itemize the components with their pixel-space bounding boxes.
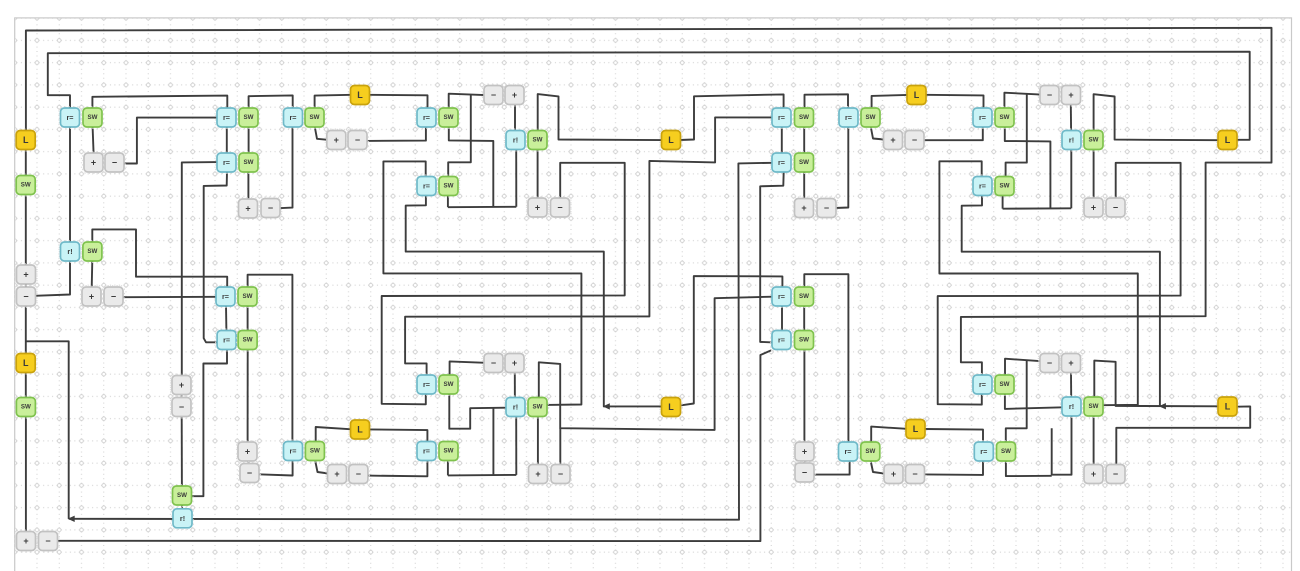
- contact-minus box M_d '−': [170, 396, 192, 418]
- svg-text:+: +: [512, 358, 517, 368]
- svg-text:r!: r!: [513, 136, 518, 145]
- svg-text:+: +: [891, 469, 896, 479]
- svg-text:r=: r=: [423, 447, 430, 456]
- wire Rc bottom chain: [204, 172, 227, 342]
- relay-eq box R_e 'r=': [216, 329, 238, 351]
- relay-eq box R_h 'r=': [415, 175, 437, 197]
- lamp box L1 'L': [15, 129, 37, 151]
- contact-plus box P_e '+': [236, 440, 258, 462]
- svg-text:SW: SW: [310, 114, 320, 121]
- wire junction1026 to SWu top: [1006, 94, 1027, 176]
- svg-text:SW: SW: [87, 248, 97, 255]
- wire SWi-Mg: [449, 94, 485, 109]
- contact-minus box M_n '−': [1038, 84, 1060, 106]
- svg-text:SW: SW: [1000, 114, 1010, 121]
- wire Rg-Mf: [366, 127, 426, 141]
- svg-text:SW: SW: [244, 114, 254, 121]
- relay-eq box R_a 'r=': [59, 106, 81, 128]
- wire SWi chain H140: [449, 127, 494, 207]
- contact-plus box P_i '+': [326, 463, 348, 485]
- wire SW1-P1: [25, 196, 27, 267]
- wire SWt-Po: [1093, 149, 1095, 200]
- contact-plus box P_o '+': [1082, 196, 1104, 218]
- switch box SW_t 'SW': [1082, 129, 1104, 151]
- wire H475: [448, 474, 516, 477]
- svg-text:r=: r=: [778, 113, 785, 122]
- wire SWb top chain: [92, 229, 227, 288]
- relay-eq box R_i 'r=': [282, 440, 304, 462]
- svg-text:−: −: [912, 135, 917, 145]
- svg-text:+: +: [801, 203, 806, 213]
- contact-minus box M_m '−': [903, 129, 925, 151]
- contact-plus box P2 '+': [15, 530, 37, 552]
- wire bridge SWa-Rb: [92, 96, 227, 111]
- wire Pd-Md: [181, 393, 183, 398]
- svg-text:SW: SW: [243, 293, 253, 300]
- contact-minus box M1 '−': [15, 285, 37, 307]
- wire RXa-M1: [35, 260, 70, 296]
- contact-minus box M_p '−': [793, 461, 815, 483]
- switch box SW_e 'SW': [236, 285, 258, 307]
- switch box SW_z 'SW': [995, 440, 1017, 462]
- wire SWl-Pi: [315, 460, 328, 474]
- contact-minus box M_f '−': [346, 129, 368, 151]
- wire SWo-Pk: [537, 416, 539, 465]
- contact-plus box P_n '+': [1060, 84, 1082, 106]
- wire SWu bottom: [1002, 195, 1004, 208]
- contact-minus box M_h '−': [549, 196, 571, 218]
- relay-eq box R_r 'r=': [770, 329, 792, 351]
- relay-excl box RX_b 'r!': [171, 507, 193, 529]
- svg-text:+: +: [91, 158, 96, 168]
- relay-eq box R_m 'r=': [770, 151, 792, 173]
- svg-text:SW: SW: [243, 337, 253, 344]
- svg-text:r=: r=: [223, 336, 230, 345]
- svg-text:SW: SW: [444, 381, 454, 388]
- relay-eq box R_j 'r=': [415, 373, 437, 395]
- svg-text:SW: SW: [533, 137, 543, 144]
- svg-text:+: +: [1091, 203, 1096, 213]
- switch box SW_u 'SW': [993, 175, 1015, 197]
- svg-text:r=: r=: [778, 292, 785, 301]
- contact-minus box M2 '−': [37, 530, 59, 552]
- svg-text:r=: r=: [845, 447, 852, 456]
- switch box SW2 'SW': [15, 396, 37, 418]
- svg-text:−: −: [45, 536, 50, 546]
- svg-text:−: −: [558, 469, 563, 479]
- wire Pn-RXe: [1070, 104, 1072, 132]
- svg-text:SW: SW: [1089, 403, 1099, 410]
- wire SWx-Pq: [871, 461, 885, 474]
- wire Rq-Rr: [781, 306, 783, 332]
- wire SWd-Pc: [247, 172, 249, 200]
- wire bus541: [57, 350, 771, 541]
- svg-text:SW: SW: [444, 448, 454, 455]
- wire junction470 to SWk top: [448, 95, 471, 177]
- wire SWy top to Mr: [1005, 359, 1041, 376]
- switch box SW_c 'SW': [237, 106, 259, 128]
- svg-text:SW: SW: [799, 159, 809, 166]
- wire Mc-Rf bottom: [279, 126, 293, 208]
- wire SWk bottom: [447, 196, 449, 207]
- wire bridge SWc-Rf: [249, 95, 293, 108]
- switch box SW_w 'SW': [793, 329, 815, 351]
- wire Mb-Rd: [123, 296, 217, 298]
- wire arrow: [1159, 403, 1166, 409]
- wire SWb-Pb: [91, 261, 94, 289]
- svg-text:+: +: [512, 90, 517, 100]
- lamp box L9 'L': [660, 129, 682, 151]
- wire Pr-RXf: [1070, 372, 1072, 399]
- svg-text:−: −: [179, 402, 184, 412]
- wire P1-left: [382, 163, 625, 404]
- relay-eq box R_f 'r=': [282, 106, 304, 128]
- svg-text:−: −: [1047, 90, 1052, 100]
- svg-text:−: −: [112, 158, 117, 168]
- lamp box L3 'L': [349, 84, 371, 106]
- wire SWv-SWw: [803, 306, 805, 332]
- wire SWm top to Mj: [450, 361, 486, 375]
- svg-text:+: +: [890, 135, 895, 145]
- svg-text:+: +: [245, 204, 250, 214]
- contact-plus box P_s '+': [1082, 463, 1104, 485]
- wire L3-SWh: [315, 95, 352, 109]
- wire H208r: [1003, 207, 1072, 209]
- wire SWn bottom: [447, 462, 449, 476]
- wire SWj-Ph: [537, 149, 539, 200]
- svg-text:r=: r=: [778, 336, 785, 345]
- wire P2-right: [962, 196, 1160, 406]
- relay-excl box RX_d 'r!': [504, 396, 526, 418]
- switch box SW_i 'SW': [437, 106, 459, 128]
- wire branch to bus519: [26, 341, 69, 519]
- svg-text:SW: SW: [1001, 448, 1011, 455]
- wire SWa-Pa: [93, 127, 94, 154]
- contact-minus box M_l '−': [815, 197, 837, 219]
- svg-text:r!: r!: [67, 247, 72, 256]
- contact-minus box M_i '−': [347, 463, 369, 485]
- svg-text:−: −: [1047, 358, 1052, 368]
- wire A (top bus): [26, 28, 1272, 377]
- svg-text:L: L: [914, 90, 920, 100]
- svg-text:+: +: [535, 469, 540, 479]
- relay-eq box R_d 'r=': [214, 285, 236, 307]
- svg-text:+: +: [1091, 469, 1096, 479]
- relay-eq box R_b 'r=': [215, 106, 237, 128]
- svg-text:+: +: [179, 380, 184, 390]
- svg-text:L: L: [913, 424, 919, 434]
- wire SWg-RXb: [181, 505, 183, 511]
- svg-text:SW: SW: [21, 404, 31, 411]
- svg-text:SW: SW: [865, 448, 875, 455]
- contact-minus box M_a '−': [103, 151, 125, 173]
- switch box SW_v 'SW': [793, 285, 815, 307]
- svg-text:+: +: [535, 203, 540, 213]
- wire L6-SWx: [871, 427, 906, 443]
- svg-text:r!: r!: [1069, 402, 1074, 411]
- wire SWw-Pp: [803, 350, 805, 443]
- switch box SW_g 'SW': [171, 484, 193, 506]
- wire P2-left: [406, 196, 663, 407]
- relay-eq box R_q 'r=': [770, 285, 792, 307]
- wire RXd bottom: [515, 416, 517, 475]
- wire L2-SW2: [25, 372, 27, 399]
- contact-plus box P_r '+': [1060, 352, 1082, 374]
- contact-plus box P_b '+': [80, 285, 102, 307]
- relay-eq box R_g 'r=': [415, 106, 437, 128]
- wire R_a-RX_a: [69, 125, 71, 244]
- contact-plus box P_g '+': [503, 84, 525, 106]
- wire SWh-Pf: [315, 127, 328, 140]
- contact-minus box M_o '−': [1104, 196, 1126, 218]
- relay-eq box R_l 'r=': [770, 106, 792, 128]
- wire P1-M1: [25, 284, 27, 289]
- svg-text:L: L: [357, 425, 363, 435]
- wire SWp-SWq: [803, 126, 805, 154]
- svg-text:−: −: [557, 203, 562, 213]
- wire Mp-Rs bottom: [814, 460, 850, 474]
- wire Rd-Re: [225, 305, 227, 331]
- svg-text:L: L: [1225, 135, 1231, 145]
- svg-text:SW: SW: [533, 404, 543, 411]
- svg-text:SW: SW: [177, 492, 187, 499]
- relay-eq box R_u 'r=': [973, 440, 995, 462]
- wire SWs chain H141: [1005, 127, 1051, 208]
- svg-text:L: L: [357, 90, 363, 100]
- switch box SW_p 'SW': [793, 106, 815, 128]
- relay-excl box RX_e 'r!': [1060, 129, 1082, 151]
- svg-text:r=: r=: [979, 380, 986, 389]
- wire Pp-Mp: [804, 460, 806, 463]
- svg-text:SW: SW: [444, 183, 454, 190]
- wire L4 right down: [367, 429, 427, 476]
- contact-minus box M_k '−': [549, 463, 571, 485]
- svg-text:+: +: [23, 270, 28, 280]
- svg-text:−: −: [912, 469, 917, 479]
- wire H207: [448, 206, 516, 208]
- wire Pg-RXc: [514, 104, 516, 131]
- wire L5 right down: [926, 95, 984, 110]
- wire P3-left: [383, 161, 581, 405]
- svg-text:−: −: [355, 135, 360, 145]
- svg-text:SW: SW: [310, 448, 320, 455]
- relay-excl box RX_a 'r!': [59, 240, 81, 262]
- svg-text:r=: r=: [423, 182, 430, 191]
- svg-text:+: +: [89, 292, 94, 302]
- wire SWA top to L8: [1094, 361, 1218, 407]
- svg-text:+: +: [802, 447, 807, 457]
- wire arrow: [603, 403, 610, 409]
- contact-plus box P_p '+': [793, 440, 815, 462]
- svg-text:−: −: [802, 468, 807, 478]
- contact-minus box M_q '−': [904, 463, 926, 485]
- contact-plus box P_c '+': [237, 197, 259, 219]
- wire M1 to L2 top: [25, 305, 27, 354]
- wire RXf bottom chain: [1052, 416, 1072, 474]
- svg-text:r=: r=: [423, 113, 430, 122]
- contact-minus box M_g '−': [482, 84, 504, 106]
- contact-plus box P_f '+': [325, 129, 347, 151]
- svg-text:r=: r=: [67, 113, 74, 122]
- switch box SW_n 'SW': [437, 440, 459, 462]
- switch box SW_l 'SW': [304, 440, 326, 462]
- contact-plus box P_k '+': [527, 463, 549, 485]
- switch box SW1 'SW': [15, 174, 37, 196]
- svg-text:r=: r=: [290, 113, 297, 122]
- svg-text:−: −: [824, 203, 829, 213]
- wire SWA-Ps: [1093, 416, 1095, 465]
- lamp box L6 'L': [904, 418, 926, 440]
- wire SWs-Mn: [1004, 93, 1041, 109]
- switch box SW_x 'SW': [859, 440, 881, 462]
- wire Ma-Rb left: [123, 118, 217, 164]
- relay-excl box RX_f 'r!': [1060, 395, 1082, 417]
- contact-minus box M_c '−': [259, 197, 281, 219]
- wire bridge SWp-Rn: [805, 94, 849, 110]
- wire SWv top to Rs top: [804, 274, 848, 443]
- wire SW2-P2: [25, 416, 27, 532]
- wire SWf-Pe: [247, 350, 249, 443]
- svg-text:r=: r=: [290, 447, 297, 456]
- svg-text:L: L: [23, 135, 29, 145]
- contact-minus box M_j '−': [482, 352, 504, 374]
- lamp box L8 'L': [1216, 395, 1238, 417]
- svg-text:SW: SW: [88, 114, 98, 121]
- relay-eq box R_t 'r=': [971, 373, 993, 395]
- svg-text:−: −: [491, 90, 496, 100]
- svg-text:r=: r=: [222, 292, 229, 301]
- wire Ro-Mm: [923, 127, 983, 140]
- svg-text:−: −: [111, 292, 116, 302]
- wire SWj top to L671: [538, 94, 663, 140]
- svg-text:SW: SW: [799, 114, 809, 121]
- svg-text:SW: SW: [244, 159, 254, 166]
- wire L5-SWr: [872, 95, 908, 109]
- svg-text:+: +: [23, 536, 28, 546]
- switch box SW_s 'SW': [993, 106, 1015, 128]
- switch box SW_h 'SW': [303, 106, 325, 128]
- wire SWt top to L7: [1094, 94, 1219, 140]
- relay-eq box R_k 'r=': [415, 440, 437, 462]
- relay-eq box R_s 'r=': [837, 440, 859, 462]
- wire SWq-Pl: [803, 172, 805, 200]
- switch box SW_d 'SW': [237, 151, 259, 173]
- wire L1-SW1: [25, 149, 27, 176]
- svg-text:−: −: [1113, 203, 1118, 213]
- wire SWe top chain: [248, 275, 293, 443]
- wire SWr-Pm: [871, 127, 884, 140]
- switch box SW_b 'SW': [81, 240, 103, 262]
- switch box SW_j 'SW': [526, 129, 548, 151]
- wire Rl-Rm: [781, 126, 783, 154]
- svg-text:−: −: [23, 292, 28, 302]
- svg-text:SW: SW: [799, 293, 809, 300]
- svg-text:r!: r!: [180, 514, 185, 523]
- wire Ml-Rn bottom: [835, 126, 848, 208]
- svg-text:r=: r=: [979, 182, 986, 191]
- svg-text:SW: SW: [444, 114, 454, 121]
- svg-text:SW: SW: [1000, 381, 1010, 388]
- wire SWe-SWf: [247, 305, 249, 331]
- relay-eq box R_n 'r=': [837, 106, 859, 128]
- svg-text:r=: r=: [980, 447, 987, 456]
- svg-text:+: +: [334, 469, 339, 479]
- svg-text:r=: r=: [979, 113, 986, 122]
- svg-text:L: L: [1225, 402, 1231, 412]
- svg-text:+: +: [334, 135, 339, 145]
- svg-text:SW: SW: [1000, 183, 1010, 190]
- wire L671 right up: [680, 94, 784, 140]
- wire P3-right: [939, 161, 1137, 405]
- svg-text:−: −: [356, 469, 361, 479]
- svg-text:+: +: [1068, 358, 1073, 368]
- wire B (second bus): [48, 52, 1250, 140]
- lamp box L7 'L': [1216, 129, 1238, 151]
- wire L6 right down: [924, 429, 983, 475]
- switch box SW_o 'SW': [526, 396, 548, 418]
- switch box SW_r 'SW': [859, 106, 881, 128]
- relay-eq box R_p 'r=': [971, 175, 993, 197]
- wire L671b right up to Rq top: [681, 276, 782, 405]
- wire Pe-Me: [247, 461, 249, 465]
- contact-minus box M_s '−': [1104, 463, 1126, 485]
- lamp box L5 'L': [905, 84, 927, 106]
- wire Pj-RXd: [514, 372, 516, 400]
- wire RXe bottom: [1070, 149, 1072, 209]
- wire L8 right to Ms top: [1116, 406, 1250, 465]
- lamp box L4 'L': [349, 418, 371, 440]
- svg-text:SW: SW: [799, 337, 809, 344]
- contact-plus box P_a '+': [82, 151, 104, 173]
- contact-minus box M_b '−': [102, 285, 124, 307]
- wire junction1026b to SWz top: [1006, 360, 1027, 442]
- relay-excl box RX_c 'r!': [504, 129, 526, 151]
- switch box SW_a 'SW': [81, 106, 103, 128]
- svg-text:−: −: [268, 203, 273, 213]
- wire Re bottom chain: [191, 349, 227, 496]
- wire junction493 down: [492, 408, 494, 475]
- svg-text:r=: r=: [845, 113, 852, 122]
- switch box SW_f 'SW': [237, 329, 259, 351]
- svg-text:L: L: [668, 402, 674, 412]
- wire bus519: [69, 163, 773, 520]
- svg-text:SW: SW: [21, 182, 31, 189]
- switch box SW_k 'SW': [437, 175, 459, 197]
- contact-plus box P_h '+': [526, 196, 548, 218]
- svg-text:r!: r!: [513, 403, 518, 412]
- wire SWc-SWd: [248, 127, 250, 154]
- wire arrow: [68, 516, 75, 522]
- wire P4-left: [405, 117, 773, 375]
- svg-text:+: +: [245, 447, 250, 457]
- switch box SW_y 'SW': [993, 373, 1015, 395]
- svg-text:−: −: [247, 468, 252, 478]
- wire SWz bottom chain: [1006, 460, 1052, 476]
- contact-plus box P_d '+': [170, 374, 192, 396]
- svg-text:r=: r=: [223, 158, 230, 167]
- svg-text:r!: r!: [1069, 136, 1074, 145]
- switch box SW_m 'SW': [437, 373, 459, 395]
- svg-text:SW: SW: [866, 114, 876, 121]
- lamp box L2 'L': [15, 352, 37, 374]
- svg-text:r=: r=: [223, 113, 230, 122]
- svg-text:−: −: [1113, 469, 1118, 479]
- wire P1-right: [938, 163, 1181, 405]
- svg-text:r=: r=: [423, 380, 430, 389]
- contact-plus box P1 '+': [15, 263, 37, 285]
- svg-text:SW: SW: [1089, 137, 1099, 144]
- wire SWm bottom chain to RXd: [449, 394, 506, 429]
